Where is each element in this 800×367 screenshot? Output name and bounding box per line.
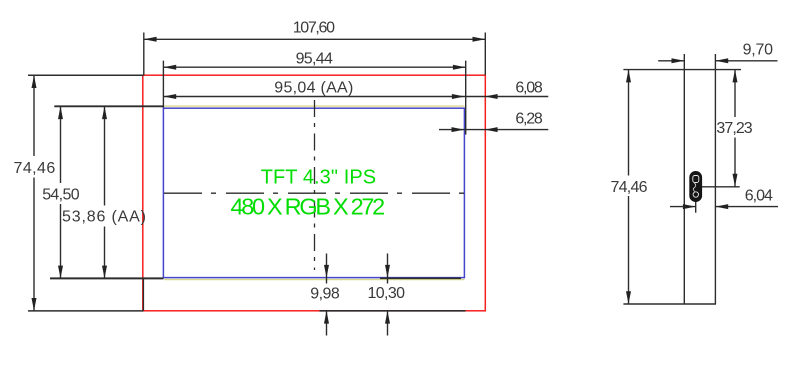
svg-text:74,46: 74,46	[611, 179, 648, 196]
svg-text:6,28: 6,28	[515, 110, 542, 127]
side view bottom edge	[623, 303, 716, 305]
dimension 107,60 line	[144, 38, 486, 40]
extension vertical for 107,60 right	[484, 33, 486, 76]
connector centre extension line	[702, 186, 740, 188]
red outline TP (module front view)	[143, 75, 486, 311]
dimension 9,70	[658, 60, 684, 62]
svg-text:6,08: 6,08	[515, 79, 542, 96]
svg-text:10,30: 10,30	[368, 285, 406, 302]
extension line top-left horizontal (74,46 top)	[28, 74, 144, 76]
dimension 95,04 (AA) line + 6,08 shared line	[163, 96, 548, 98]
dimension 10,30 lower arrow	[387, 311, 389, 336]
svg-text:95,04 (AA): 95,04 (AA)	[274, 80, 353, 97]
dimension 53,86 (AA) vertical	[104, 106, 106, 205]
extension vertical for 107,60 left	[143, 33, 145, 76]
svg-text:9,70: 9,70	[743, 41, 773, 58]
USB connector capsule (side view)	[690, 172, 702, 202]
side view top edge with extensions	[623, 69, 741, 71]
yellow opening top edge	[164, 105, 465, 107]
bezel bottom / extension line left segment	[50, 277, 164, 279]
dimension 95,44 line	[163, 66, 465, 68]
center line horizontal dash-dot	[164, 192, 465, 194]
extension line bottom-left horizontal (74,46 bottom)	[28, 310, 143, 312]
black segment over red bottom edge	[320, 310, 466, 312]
bezel bottom black segment right part	[380, 277, 461, 279]
black segment over red left edge bottom	[142, 278, 144, 310]
svg-text:53,86 (AA): 53,86 (AA)	[62, 209, 146, 226]
dimension 9,98 lower arrow	[326, 311, 328, 336]
dimension 9,98 upper arrow	[326, 254, 328, 284]
svg-text:54,50: 54,50	[42, 186, 79, 203]
connector centerline tick	[695, 201, 697, 213]
extension vertical for 95,44 left	[162, 61, 164, 108]
dimension 74,46 right view vertical	[628, 70, 630, 176]
extension vertical for 95,44 / 6,08 right	[465, 61, 467, 135]
yellow opening bottom edge	[164, 279, 464, 281]
svg-text:107,60: 107,60	[293, 20, 335, 37]
dimension 6,04	[670, 206, 696, 208]
side view right edge	[714, 54, 716, 304]
dimension 6,28 line	[439, 129, 548, 131]
blue active area rectangle	[163, 108, 464, 277]
side view left edge	[683, 54, 685, 304]
svg-text:9,98: 9,98	[310, 286, 340, 303]
svg-text:6,04: 6,04	[745, 187, 773, 204]
svg-text:480 X RGB X 272: 480 X RGB X 272	[231, 194, 386, 220]
dimension 54,50 vertical	[60, 106, 62, 183]
dimension 74,46 left vertical	[33, 75, 35, 156]
svg-text:37,23: 37,23	[716, 120, 752, 137]
svg-text:95,44: 95,44	[296, 51, 333, 68]
svg-text:74,46: 74,46	[14, 160, 56, 177]
svg-text:TFT 4.3" IPS: TFT 4.3" IPS	[261, 167, 376, 189]
center line vertical dash-dot	[314, 100, 316, 270]
extension line left of bezel top	[54, 105, 163, 107]
dimension 37,23 vertical	[734, 70, 736, 117]
dimension 10,30 upper arrow	[387, 254, 389, 284]
